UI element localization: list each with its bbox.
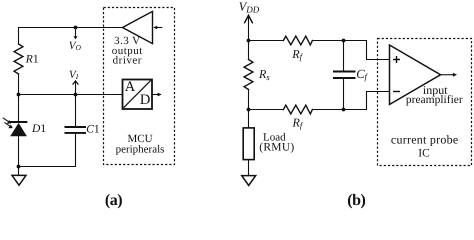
svg-text:peripherals: peripherals bbox=[116, 144, 165, 156]
svg-text:Rf: Rf bbox=[292, 116, 304, 131]
svg-text:IC: IC bbox=[418, 147, 430, 159]
svg-text:VDD: VDD bbox=[239, 0, 260, 14]
svg-text:R1: R1 bbox=[25, 53, 39, 65]
svg-text:(b): (b) bbox=[347, 192, 365, 209]
svg-text:preamplifier: preamplifier bbox=[406, 94, 463, 106]
svg-text:driver: driver bbox=[113, 55, 142, 67]
svg-text:Rf: Rf bbox=[291, 47, 303, 62]
svg-text:C1: C1 bbox=[86, 124, 100, 136]
svg-text:D1: D1 bbox=[31, 123, 46, 135]
svg-text:D: D bbox=[140, 92, 150, 108]
svg-text:A: A bbox=[125, 79, 136, 95]
svg-text:current probe: current probe bbox=[391, 132, 459, 146]
svg-text:(a): (a) bbox=[105, 192, 122, 209]
svg-text:VO: VO bbox=[69, 40, 82, 52]
svg-text:Cf: Cf bbox=[356, 67, 368, 82]
svg-text:Rs: Rs bbox=[258, 67, 270, 82]
svg-text:VI: VI bbox=[69, 69, 79, 81]
svg-text:(RMU): (RMU) bbox=[259, 142, 294, 154]
